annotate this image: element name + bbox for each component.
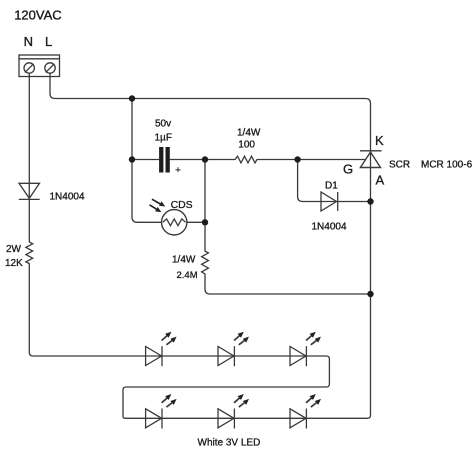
svg-text:2.4M: 2.4M xyxy=(177,270,198,281)
svg-text:D1: D1 xyxy=(325,181,338,192)
svg-text:+: + xyxy=(175,165,181,176)
svg-text:1µF: 1µF xyxy=(155,133,172,144)
svg-text:K: K xyxy=(375,133,384,148)
svg-text:1N4004: 1N4004 xyxy=(50,192,85,203)
svg-text:N: N xyxy=(24,34,33,49)
svg-text:1/4W: 1/4W xyxy=(237,128,261,139)
svg-text:MCR 100-6: MCR 100-6 xyxy=(421,160,473,171)
svg-text:CDS: CDS xyxy=(171,200,193,211)
svg-text:White 3V LED: White 3V LED xyxy=(198,438,261,449)
svg-text:100: 100 xyxy=(238,140,255,151)
svg-text:12K: 12K xyxy=(5,258,23,269)
svg-text:1/4W: 1/4W xyxy=(172,255,196,266)
svg-text:2W: 2W xyxy=(6,244,22,255)
svg-text:1N4004: 1N4004 xyxy=(312,222,347,233)
svg-text:L: L xyxy=(45,34,52,49)
svg-text:G: G xyxy=(343,162,353,177)
svg-text:120VAC: 120VAC xyxy=(14,7,61,22)
svg-text:SCR: SCR xyxy=(389,160,410,171)
svg-text:A: A xyxy=(376,173,385,188)
svg-text:50v: 50v xyxy=(155,119,171,130)
